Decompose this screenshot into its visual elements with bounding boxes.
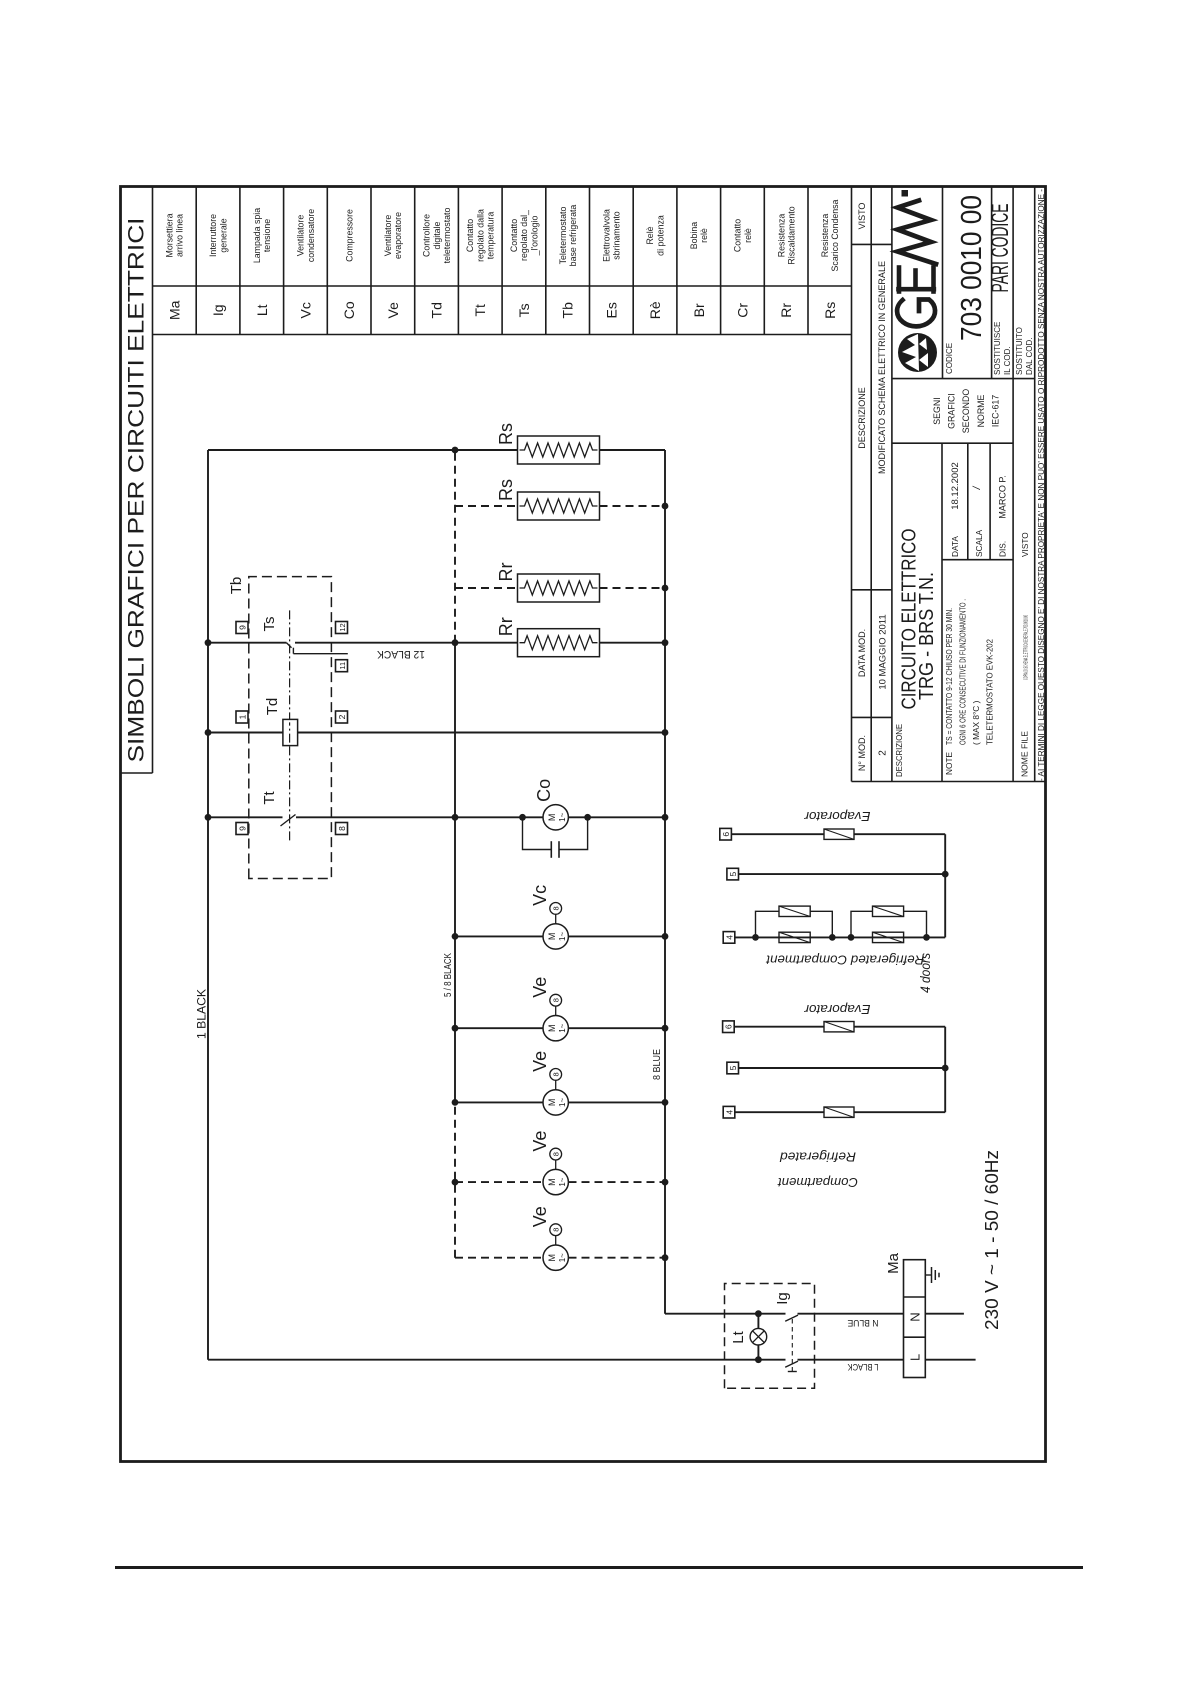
svg-text:N° MOD.: N° MOD. (857, 735, 867, 771)
collector wire (single) (942, 1027, 949, 1113)
svg-text:8: 8 (552, 998, 561, 1002)
svg-text:Ve: Ve (530, 1206, 550, 1227)
legend row Rr (776, 206, 796, 317)
svg-text:SEGNI: SEGNI (932, 397, 942, 424)
svg-text:703 0010 00: 703 0010 00 (956, 195, 988, 341)
junction dots lamp (755, 1310, 762, 1363)
svg-text:9: 9 (237, 625, 247, 630)
svg-text:Compressore: Compressore (344, 209, 354, 262)
svg-text:5 / 8 BLACK: 5 / 8 BLACK (442, 953, 454, 997)
svg-text:Contatto: Contatto (733, 219, 743, 252)
wire: Ve3 dashed branch (455, 1181, 665, 1183)
svg-text:L BLACK: L BLACK (848, 1362, 879, 1372)
svg-text:N BLUE: N BLUE (848, 1318, 879, 1328)
GEMM logo emblem circle (898, 333, 937, 372)
svg-text:Rr: Rr (778, 303, 794, 318)
svg-text:Ts: Ts (516, 303, 532, 317)
svg-text:SOSTITUISCE: SOSTITUISCE (993, 322, 1002, 375)
resistor Rr branch at x=875 (496, 563, 600, 603)
svg-text:relè: relè (743, 228, 753, 243)
motor Co at x=645.7 (534, 779, 568, 830)
svg-text:Ve: Ve (530, 1131, 550, 1152)
pilot lamp Lt link wire (757, 1314, 759, 1360)
legend title box SIMBOLI GRAFICI PER CIRCUITI ELETTRICI (121, 187, 153, 773)
collector wire (4 doors) (942, 834, 949, 937)
svg-text:SECONDO: SECONDO (961, 389, 971, 434)
svg-text:DESCRIZIONE: DESCRIZIONE (857, 387, 867, 449)
svg-text:Vc: Vc (530, 885, 550, 906)
svg-text:9: 9 (237, 826, 247, 831)
svg-text:M: M (547, 1254, 557, 1262)
svg-text:Refrigerated Compartment: Refrigerated Compartment (765, 952, 924, 967)
resistor Rs branch at x=957 (496, 479, 600, 520)
svg-text:Es: Es (603, 302, 619, 318)
NOME FILE cell (1020, 615, 1030, 777)
svg-text:M: M (547, 1178, 557, 1186)
evaporator heater branch (4 doors) (731, 829, 945, 839)
descrizione cell: CIRCUITO ELETTRICO TRG - BRS T.N. (895, 529, 938, 778)
svg-text:8: 8 (552, 906, 561, 910)
capacitor of Co (519, 814, 591, 858)
svg-text:Tb: Tb (560, 302, 576, 319)
svg-text:M: M (547, 1099, 557, 1107)
svg-text:Evaporator: Evaporator (804, 1002, 871, 1017)
svg-text:4 doors: 4 doors (917, 953, 933, 993)
svg-text:8 BLUE: 8 BLUE (651, 1049, 663, 1080)
GEMM logo wordmark (897, 190, 936, 326)
page footer rule (115, 1566, 1083, 1569)
terminal 2 (Td bottom) (336, 711, 348, 723)
junction dots top bus (205, 639, 212, 820)
wire: Ts/Rr2 branch (208, 642, 665, 644)
svg-text:DAL COD.: DAL COD. (1025, 338, 1034, 376)
wire: feeder rail (5/8 BLACK) solid part (454, 643, 456, 1103)
svg-text:6: 6 (724, 1024, 734, 1029)
wire terminal5 branch (739, 873, 946, 875)
svg-text:5: 5 (728, 871, 738, 876)
connector terminal 4 (723, 1106, 735, 1118)
connector terminal 4 (723, 932, 735, 944)
svg-text:M: M (547, 814, 557, 822)
svg-text:4: 4 (724, 935, 734, 940)
svg-text:SCALA: SCALA (974, 529, 984, 557)
svg-text:/: / (972, 485, 983, 490)
svg-text:Refrigerated: Refrigerated (779, 1150, 856, 1165)
svg-text:SOSTITUITO: SOSTITUITO (1015, 327, 1024, 375)
legend row Ma (165, 213, 185, 320)
wire: Vc branch (455, 935, 665, 937)
svg-text:arrivo linea: arrivo linea (175, 214, 185, 257)
svg-text:Evaporator: Evaporator (804, 809, 871, 824)
junction dots feeder rail (452, 447, 459, 1186)
svg-text:Compartment: Compartment (777, 1175, 858, 1190)
terminal 8 (Tt bottom) (336, 823, 348, 835)
motor Ve at x=205.3 (530, 1206, 568, 1270)
svg-text:Tt: Tt (472, 304, 488, 317)
svg-text:Bobina: Bobina (689, 222, 699, 249)
svg-text:Ve: Ve (385, 302, 401, 319)
wire: L feed riser from terminal L to top bus (208, 1359, 904, 1361)
svg-text:Scarico Condensa: Scarico Condensa (830, 199, 840, 271)
svg-text:10 MAGGIO 2011: 10 MAGGIO 2011 (878, 614, 889, 689)
svg-text:Td: Td (429, 302, 445, 318)
motor Ve at x=434.8 (530, 977, 568, 1041)
wire: Tt/Co branch (208, 816, 665, 818)
svg-text:11: 11 (338, 662, 347, 670)
resistor Rr branch at x=820.3 (496, 617, 600, 657)
compartment heater branch (single) (735, 1107, 945, 1117)
svg-text:DATA: DATA (950, 536, 960, 557)
drawing frame border (121, 187, 1046, 1462)
svg-text:( MAX 8°C ): ( MAX 8°C ) (971, 700, 981, 745)
svg-text:NOME FILE: NOME FILE (1020, 731, 1030, 777)
wire: N bus (664, 450, 666, 1314)
svg-text:tensione: tensione (262, 219, 272, 252)
svg-text:8: 8 (552, 1152, 561, 1156)
svg-text:1 BLACK: 1 BLACK (197, 989, 209, 1039)
Ig switch dashed box (725, 1284, 815, 1389)
title block grid lines (852, 187, 1046, 782)
svg-text:Morsettiera: Morsettiera (165, 213, 175, 257)
svg-text:Rr: Rr (496, 563, 516, 582)
teletermostato Tb dashed box (249, 577, 332, 879)
svg-text:1~: 1~ (558, 932, 567, 941)
motor Ve at x=360.6 (530, 1051, 568, 1115)
svg-text:GRAFICI: GRAFICI (947, 393, 957, 429)
svg-text:_l'orologio: _l'orologio (529, 215, 539, 256)
svg-text:5: 5 (728, 1065, 738, 1070)
wire terminal5 branch (single) (739, 1067, 946, 1069)
resistor Rs branch at x=1013 (496, 423, 600, 464)
svg-text:base refrigerata: base refrigerata (568, 205, 578, 267)
svg-text:Tb: Tb (228, 577, 245, 595)
pilot lamp Lt (750, 1328, 767, 1345)
legend row Vc (296, 209, 316, 319)
contact Tt (281, 815, 296, 827)
svg-text:Riscaldamento: Riscaldamento (787, 206, 797, 264)
svg-text:Ig: Ig (210, 304, 226, 316)
svg-text:generale: generale (218, 218, 228, 252)
legend row Br (689, 222, 709, 318)
wire: feeder rail dashed left part (454, 1102, 456, 1257)
svg-text:sbrinamento: sbrinamento (612, 211, 622, 260)
contact Ts (287, 643, 348, 654)
connector terminal 5 (727, 1062, 739, 1074)
connector terminal 5 (727, 868, 739, 880)
svg-text:12 BLACK: 12 BLACK (376, 648, 425, 660)
svg-text:Controllore: Controllore (422, 214, 432, 257)
svg-text:M: M (547, 1024, 557, 1032)
mechanical linkage line (289, 608, 291, 840)
svg-text:N: N (907, 1312, 922, 1321)
svg-text:TS = CONTATTO 9-12 CHIUSO PER: TS = CONTATTO 9-12 CHIUSO PER 30 MIN. (944, 608, 954, 745)
svg-text:Ig: Ig (774, 1292, 791, 1305)
terminal 1 (Td top) (236, 711, 248, 723)
NOTE cell (944, 599, 995, 775)
svg-text:Ventilatore: Ventilatore (296, 215, 306, 257)
svg-text:Br: Br (691, 303, 707, 317)
svg-text:Contatto: Contatto (465, 219, 475, 252)
svg-text:1~: 1~ (558, 1098, 567, 1107)
svg-text:Interruttore: Interruttore (208, 214, 218, 257)
svg-text:1: 1 (237, 714, 247, 719)
wire: Rs2 dashed branch (455, 505, 665, 507)
wire: Ve4 dashed branch (455, 1257, 665, 1259)
svg-text:Tt: Tt (261, 791, 278, 805)
svg-text:condensatore: condensatore (306, 209, 316, 262)
svg-text:NOTE: NOTE (944, 751, 954, 775)
svg-text:12: 12 (338, 623, 347, 631)
connector terminal 6 (720, 828, 732, 840)
controller element Td (283, 719, 298, 745)
svg-text:8: 8 (337, 826, 347, 831)
svg-text:MARCO P.: MARCO P. (998, 475, 1008, 518)
svg-text:1~: 1~ (558, 812, 567, 821)
svg-text:SIMBOLI GRAFICI PER CIRCUIT: SIMBOLI GRAFICI PER CIRCUITI ELETTRICI (124, 218, 149, 763)
svg-text:Lt: Lt (254, 304, 270, 316)
svg-text:temperatura: temperatura (486, 212, 496, 260)
svg-text:digitale: digitale (432, 221, 442, 249)
legend row Ig (208, 214, 228, 316)
svg-text:1~: 1~ (558, 1023, 567, 1032)
legend row Tb (558, 205, 578, 319)
wire: Rr1 dashed branch (455, 587, 665, 589)
terminal 11 (Ts aux) (336, 660, 348, 672)
svg-text:Vc: Vc (298, 302, 314, 318)
svg-text:Lampada spia: Lampada spia (252, 208, 262, 263)
terminal block Ma (904, 1260, 926, 1378)
legend row Co (341, 209, 357, 319)
svg-text:1~: 1~ (558, 1253, 567, 1262)
svg-text:Co: Co (534, 779, 554, 802)
svg-text:Ts: Ts (261, 617, 278, 632)
wire: L phase top bus (1 BLACK) (207, 450, 209, 1360)
wire: Rs1 branch (208, 449, 665, 451)
legend row Lt (252, 208, 272, 316)
svg-text:OGNI 6 ORE CONSECUTIVE DI FUNZ: OGNI 6 ORE CONSECUTIVE DI FUNZIONAMENTO … (958, 599, 968, 745)
terminal 9 (Tt top) (236, 823, 248, 835)
svg-text:Resistenza: Resistenza (776, 214, 786, 258)
legend row Cr (733, 219, 753, 318)
svg-text:Rs: Rs (822, 302, 838, 319)
evaporator heater branch (single) (734, 1022, 945, 1032)
motor Vc at x=526.6 (530, 885, 568, 949)
wire: Td branch (208, 732, 665, 734)
svg-text:relè: relè (699, 228, 709, 243)
svg-text:Ventilatore: Ventilatore (383, 215, 393, 257)
svg-text:Rs: Rs (496, 479, 516, 501)
svg-text:8: 8 (552, 1072, 561, 1076)
symbol legend table (153, 187, 852, 335)
svg-text:COPIA.DI.SCHEMA.ELETTRICO.GENE: COPIA.DI.SCHEMA.ELETTRICO.GENERALE.703.0… (1024, 615, 1030, 680)
svg-text:VISTO: VISTO (1020, 532, 1030, 557)
svg-text:TELETERMOSTATO EVK-202: TELETERMOSTATO EVK-202 (985, 639, 995, 745)
svg-text:Td: Td (264, 698, 281, 716)
terminal 12 (Ts bottom) (336, 622, 348, 634)
legend row Rs (820, 199, 840, 318)
switch linkage with actuator bar (788, 1318, 797, 1372)
svg-text:DESCRIZIONE: DESCRIZIONE (895, 724, 904, 777)
svg-text:NORME: NORME (976, 394, 986, 427)
connector terminal 6 (723, 1021, 735, 1033)
svg-text:DIS.: DIS. (998, 541, 1008, 557)
svg-text:PARI CODICE: PARI CODICE (987, 204, 1014, 293)
legend row Ve (383, 212, 403, 319)
terminal 9 (Ts top) (236, 622, 248, 634)
CODICE cell with big code number (945, 195, 988, 374)
svg-text:IL COD.: IL COD. (1003, 346, 1012, 375)
SOSTITUISCE IL COD. / PARI CODICE cell (987, 204, 1014, 376)
svg-text:Lt: Lt (730, 1330, 747, 1343)
svg-text:Relè: Relè (645, 226, 655, 244)
svg-text:8: 8 (552, 1228, 561, 1232)
revision table texts (857, 203, 888, 771)
svg-text:Rs: Rs (496, 423, 516, 445)
DATA / SCALA / DIS / VISTO rows (950, 462, 1030, 557)
svg-text:teletermostato: teletermostato (442, 208, 452, 264)
svg-text:18.12.2002: 18.12.2002 (950, 462, 961, 510)
legend row Tt (465, 209, 495, 317)
svg-text:Teletermostato: Teletermostato (558, 207, 568, 265)
junction dots N bus (662, 503, 669, 1262)
svg-text:Cr: Cr (735, 303, 751, 318)
switch contact Ig L-pole (785, 1361, 798, 1367)
legend row Rè (645, 215, 665, 319)
svg-text:MODIFICATO SCHEMA ELETTRICO IN: MODIFICATO SCHEMA ELETTRICO IN GENERALE (877, 261, 888, 474)
svg-text:IEC-617: IEC-617 (990, 395, 1000, 427)
svg-text:TRG - BRS T.N.: TRG - BRS T.N. (916, 572, 938, 700)
svg-text:Rr: Rr (496, 617, 516, 636)
SOSTITUITO DAL COD. cell (1015, 327, 1034, 375)
svg-text:2: 2 (878, 750, 889, 756)
svg-text:2: 2 (337, 714, 347, 719)
wire: L supply stub (925, 1359, 975, 1361)
svg-text:Elettrovalvola: Elettrovalvola (601, 209, 611, 262)
svg-text:L: L (907, 1354, 922, 1361)
svg-text:Contatto: Contatto (509, 219, 519, 252)
svg-text:M: M (547, 933, 557, 941)
svg-text:DATA MOD.: DATA MOD. (857, 629, 867, 677)
svg-text:VISTO: VISTO (857, 203, 867, 230)
svg-text:evaporatore: evaporatore (393, 212, 403, 259)
svg-text:Rè: Rè (647, 301, 663, 319)
SEGNI GRAFICI cell (932, 389, 1000, 434)
wire: N feed riser from terminal N to N bus (665, 1313, 904, 1315)
wire: feeder rail dashed right part (454, 450, 456, 643)
svg-text:Co: Co (341, 301, 357, 319)
earth / ground symbol (925, 1267, 939, 1283)
legend row Ts (509, 210, 539, 317)
svg-text:6: 6 (721, 832, 731, 837)
svg-text:Ve: Ve (530, 1051, 550, 1072)
legend row Es (601, 209, 621, 318)
svg-text:regolato dal_: regolato dal_ (519, 210, 529, 261)
motor Ve at x=280.9 (530, 1131, 568, 1195)
wire: Ve1 branch (455, 1027, 665, 1029)
svg-text:- AI TERMINI DI LEGGE QUESTO D: - AI TERMINI DI LEGGE QUESTO DISEGNO E' … (1037, 189, 1046, 781)
svg-text:Ve: Ve (530, 977, 550, 998)
svg-text:CODICE: CODICE (945, 343, 954, 374)
svg-text:regolato dalla: regolato dalla (475, 209, 485, 262)
svg-text:Ma: Ma (166, 300, 182, 320)
svg-text:Ma: Ma (885, 1252, 902, 1273)
svg-text:Resistenza: Resistenza (820, 214, 830, 258)
svg-text:4: 4 (724, 1110, 734, 1115)
switch contact Ig N-pole (785, 1315, 798, 1321)
wire: Ve2 branch (455, 1101, 665, 1103)
compartment heaters branch (4 doors) (735, 906, 945, 943)
svg-text:di potenza: di potenza (655, 215, 665, 256)
wire: N supply stub (925, 1313, 964, 1315)
svg-text:230 V ~ 1 - 50 / 60Hz: 230 V ~ 1 - 50 / 60Hz (981, 1150, 1002, 1330)
svg-text:1~: 1~ (558, 1177, 567, 1186)
legend row Td (422, 208, 452, 319)
